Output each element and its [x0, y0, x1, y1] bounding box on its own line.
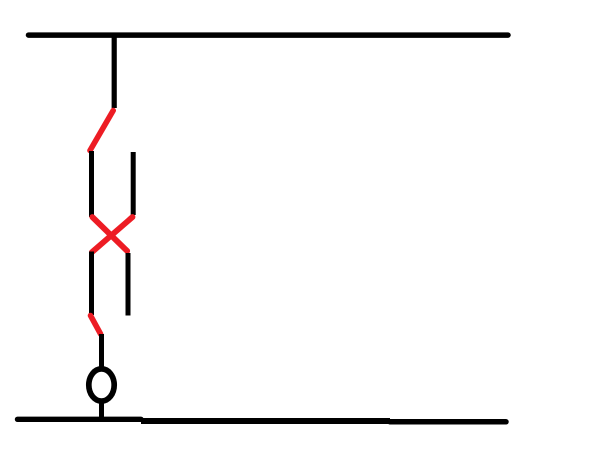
wire to instrument	[99, 334, 104, 367]
wire lower-left breaker contact	[89, 252, 94, 316]
red X open-breaker mark stroke 2	[92, 217, 133, 252]
wire below instrument	[99, 401, 104, 419]
wire lower-right breaker contact	[126, 253, 131, 316]
wire riser from top bus	[112, 36, 117, 108]
wire upper-left breaker contact	[89, 151, 94, 217]
bottom bus wire segment 1	[18, 417, 142, 422]
open disconnect switch blade (red)	[90, 111, 113, 151]
wire upper-right breaker contact	[131, 152, 136, 215]
top bus wire	[29, 32, 509, 38]
instrument circle	[89, 369, 114, 401]
bottom bus wire segment 2	[141, 418, 390, 424]
red X open-breaker mark stroke 1	[92, 217, 127, 251]
lower open switch blade (red)	[91, 316, 101, 335]
bottom bus wire segment 3	[390, 419, 506, 425]
